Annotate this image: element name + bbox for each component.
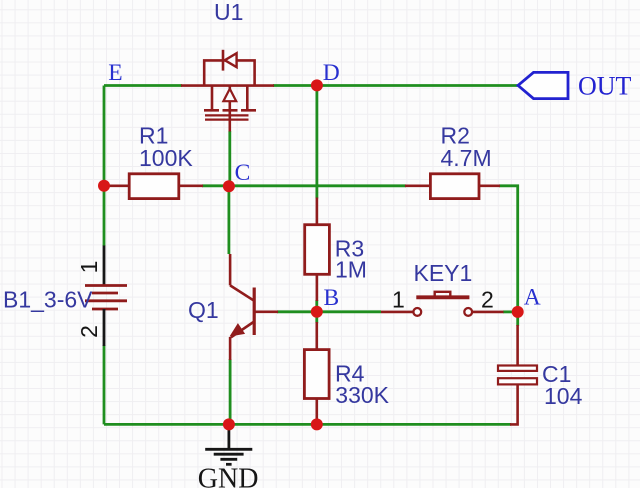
resistor R4 <box>304 322 329 422</box>
junction node D <box>311 79 323 91</box>
svg-text:1M: 1M <box>335 257 367 283</box>
svg-text:E: E <box>108 60 122 86</box>
svg-text:1: 1 <box>76 261 102 274</box>
wire E vertical to battery <box>103 86 106 247</box>
junction node B <box>311 306 323 318</box>
resistor R1 <box>105 174 203 199</box>
resistor R2 <box>405 174 500 199</box>
wire node B down to R4 <box>315 312 318 323</box>
capacitor C1 <box>498 325 537 424</box>
port OUT <box>518 72 568 98</box>
svg-text:GND: GND <box>198 464 259 488</box>
wire C to Q1 collector <box>227 186 230 254</box>
svg-text:100K: 100K <box>139 145 193 171</box>
wire battery minus down <box>103 345 106 424</box>
svg-text:KEY1: KEY1 <box>414 260 473 286</box>
MOSFET U1 (P-channel, with body diode) <box>181 50 274 132</box>
wire node A down to C1 <box>516 312 519 326</box>
resistor R3 <box>305 198 330 302</box>
junction node C <box>223 180 235 192</box>
svg-text:1: 1 <box>392 287 405 313</box>
wire drain to OUT through node D <box>273 84 518 87</box>
junction ground rail / R4 <box>311 418 323 430</box>
wire E top horizontal <box>104 84 182 87</box>
wire C row horizontal <box>202 184 406 187</box>
wire gate to node C <box>228 131 231 186</box>
wire bottom ground rail <box>104 423 511 426</box>
wire node D vertical to R3 <box>315 86 318 199</box>
svg-text:OUT: OUT <box>578 72 632 101</box>
svg-text:D: D <box>323 60 340 86</box>
wire R2 to node A <box>499 186 518 312</box>
svg-text:104: 104 <box>544 383 583 409</box>
svg-text:A: A <box>524 285 541 311</box>
battery B1 <box>85 246 127 347</box>
ground <box>205 424 252 464</box>
svg-text:4.7M: 4.7M <box>441 145 492 171</box>
svg-text:B: B <box>324 285 340 311</box>
wire KEY1 to node A <box>503 310 518 313</box>
junction node A <box>512 306 524 318</box>
junction ground rail / GND <box>223 418 235 430</box>
svg-text:C: C <box>235 160 251 186</box>
wire R3 to node B <box>315 300 318 312</box>
svg-text:2: 2 <box>76 325 102 338</box>
switch KEY1 <box>381 292 504 316</box>
svg-text:2: 2 <box>481 287 494 313</box>
wire Q1 base to node B <box>277 310 317 313</box>
svg-text:330K: 330K <box>335 382 389 408</box>
svg-text:U1: U1 <box>214 0 243 25</box>
transistor Q1 (NPN) <box>230 254 279 360</box>
wire Q1 emitter down <box>229 359 232 424</box>
svg-text:Q1: Q1 <box>188 297 219 323</box>
svg-text:B1_3-6V: B1_3-6V <box>3 287 93 313</box>
wire node B to KEY1 <box>317 310 381 313</box>
junction node E/R1 <box>98 180 110 192</box>
